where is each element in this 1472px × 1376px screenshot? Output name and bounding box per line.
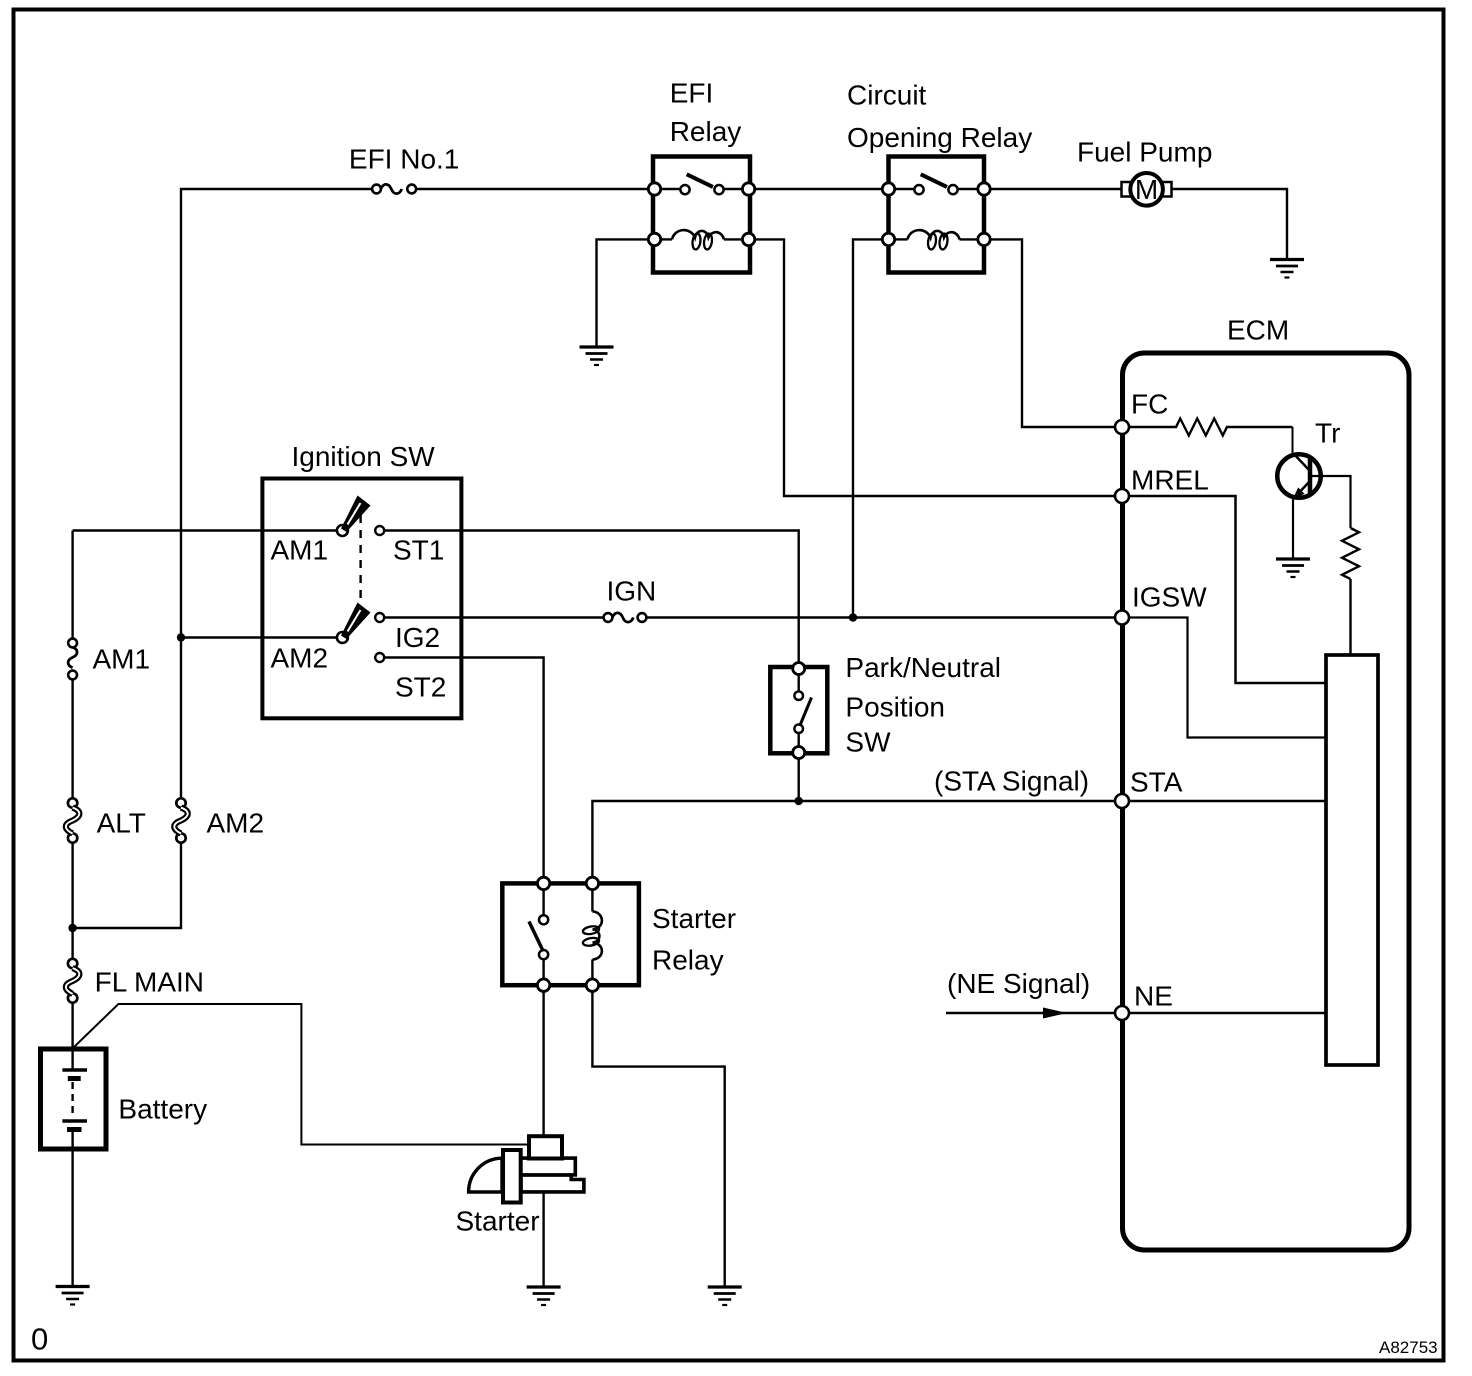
fuse FL MAIN fusible link xyxy=(68,959,77,968)
svg-text:ECM: ECM xyxy=(1227,315,1289,346)
relay COR switch contact wires xyxy=(895,188,915,190)
svg-text:Position: Position xyxy=(845,692,945,723)
wire battery to ground xyxy=(71,1132,73,1287)
switch P/N terminals xyxy=(793,663,805,675)
svg-text:ST1: ST1 xyxy=(393,535,444,566)
lever AM1 xyxy=(341,496,371,533)
junction left vertical xyxy=(68,924,76,932)
lever AM2 xyxy=(341,603,371,640)
svg-text:(STA Signal): (STA Signal) xyxy=(934,766,1089,797)
ECM box xyxy=(1123,353,1410,1250)
relay COR terminals xyxy=(882,183,894,195)
wire MREL internal xyxy=(1129,496,1326,683)
fuse EFI No.1 xyxy=(372,185,381,194)
relay EFI switch contact wires xyxy=(661,188,681,190)
junction IGN-COR branch xyxy=(849,613,857,621)
relay starter switch blade xyxy=(529,922,543,952)
wire battery feed to starter xyxy=(74,1004,530,1145)
dashed link levers xyxy=(359,515,361,604)
fuse AM2 fusible link xyxy=(176,798,185,807)
relay EFI Relay box xyxy=(653,157,750,273)
wire STA row xyxy=(592,801,1115,877)
wire ST1 to Park/Neutral SW xyxy=(384,531,799,663)
terminal AM2 xyxy=(337,632,348,643)
terminal IG2 xyxy=(375,613,384,622)
terminal ST2 xyxy=(375,653,384,662)
wire B+ feed top (corner at 181,189 down to AM2 junction) xyxy=(181,189,372,634)
wire FL MAIN to battery xyxy=(71,1003,73,1069)
svg-text:ST2: ST2 xyxy=(395,672,446,703)
pin STA xyxy=(1115,794,1129,808)
wire IGSW internal xyxy=(1129,618,1326,738)
ground Tr emitter xyxy=(1276,557,1310,560)
motor fuel pump xyxy=(1122,182,1132,197)
pin NE xyxy=(1115,1006,1129,1020)
svg-text:Battery: Battery xyxy=(118,1094,207,1125)
svg-text:FL MAIN: FL MAIN xyxy=(95,967,204,998)
battery box xyxy=(41,1049,107,1149)
switch Ignition SW box xyxy=(262,479,461,719)
wire NE signal arrow xyxy=(946,1012,1115,1014)
wire ST2 to starter relay xyxy=(384,658,543,878)
relay starter switch wires xyxy=(542,890,544,916)
pin MREL xyxy=(1115,489,1129,503)
svg-text:(NE Signal): (NE Signal) xyxy=(947,968,1090,999)
switch P/N blade xyxy=(800,698,812,727)
switch P/N inner wires xyxy=(798,675,800,692)
wire EFI relay to MREL xyxy=(755,239,1115,496)
svg-text:FC: FC xyxy=(1131,389,1168,420)
resistor FC xyxy=(1129,419,1293,436)
svg-text:STA: STA xyxy=(1130,767,1183,798)
relay COR coil xyxy=(895,238,908,240)
svg-text:IGSW: IGSW xyxy=(1132,582,1207,613)
wire fuel pump to ground xyxy=(1172,189,1288,260)
wire base to resistor xyxy=(1310,476,1351,528)
ECM internal block xyxy=(1326,655,1378,1065)
svg-text:Tr: Tr xyxy=(1315,418,1340,449)
relay Circuit Opening Relay box xyxy=(889,157,985,273)
terminal ST1 xyxy=(375,526,384,535)
resistor base pulldown xyxy=(1342,528,1359,579)
wire resistor to block xyxy=(1349,579,1351,655)
terminal AM1 xyxy=(337,525,348,536)
svg-text:M: M xyxy=(1135,174,1158,205)
relay EFI switch blade xyxy=(687,174,713,187)
svg-text:Opening Relay: Opening Relay xyxy=(847,122,1032,153)
wire IGN fuse to IGSW pin xyxy=(646,616,1115,618)
fuse IGN xyxy=(604,613,613,622)
battery plates xyxy=(62,1068,87,1072)
switch Park/Neutral box xyxy=(770,667,827,753)
svg-text:SW: SW xyxy=(845,727,891,758)
svg-text:NE: NE xyxy=(1134,981,1173,1012)
wire COR coil to IGN junction xyxy=(853,239,882,617)
svg-text:Fuel Pump: Fuel Pump xyxy=(1077,137,1212,168)
relay starter terminals xyxy=(537,877,549,889)
wire IGN row (IG2 to IGSW) xyxy=(384,616,604,618)
wire AM1 row xyxy=(73,529,337,531)
svg-text:EFI: EFI xyxy=(670,78,714,109)
svg-text:Ignition SW: Ignition SW xyxy=(292,441,436,472)
ground EFI relay xyxy=(580,345,614,348)
svg-text:Starter: Starter xyxy=(652,903,736,934)
wire starter to ground xyxy=(542,1192,544,1287)
relay starter coil xyxy=(591,890,593,912)
pin FC xyxy=(1115,420,1129,434)
svg-text:AM2: AM2 xyxy=(207,808,265,839)
svg-text:AM2: AM2 xyxy=(271,643,329,674)
wire ALT fuse to FL MAIN xyxy=(71,843,73,960)
wire P/N to STA wire xyxy=(798,759,800,802)
wire AM2 fuse to junction xyxy=(73,843,181,929)
starter motor icon xyxy=(469,1158,502,1192)
wire COR coil to FC xyxy=(990,239,1115,427)
svg-text:Starter: Starter xyxy=(456,1206,540,1237)
svg-text:IG2: IG2 xyxy=(395,622,440,653)
fuse AM1 xyxy=(68,639,77,648)
svg-text:Relay: Relay xyxy=(652,945,724,976)
switch P/N inner contacts xyxy=(794,691,803,700)
wire emitter to ground xyxy=(1292,498,1294,559)
transistor Tr xyxy=(1277,454,1321,498)
wire starter relay to starter xyxy=(542,991,544,1136)
junction P/N STA xyxy=(795,797,803,805)
svg-text:A82753: A82753 xyxy=(1379,1338,1438,1357)
relay starter switch inner contacts xyxy=(539,915,548,924)
wire AM2 row xyxy=(181,636,337,638)
wire EFI relay to Circuit Opening Relay xyxy=(755,188,883,190)
relay EFI coil xyxy=(661,238,672,240)
ground battery xyxy=(56,1285,90,1288)
svg-text:Relay: Relay xyxy=(670,116,742,147)
svg-text:MREL: MREL xyxy=(1131,465,1209,496)
junction AM2 branch top xyxy=(177,633,185,641)
wire fuse to EFI relay xyxy=(416,188,648,190)
fuse ALT fusible link xyxy=(68,798,77,807)
relay Starter Relay box xyxy=(502,883,639,985)
relay COR switch blade xyxy=(921,174,947,187)
wire left vertical top xyxy=(71,531,73,640)
svg-text:0: 0 xyxy=(31,1322,48,1357)
ground starter relay coil xyxy=(708,1285,742,1288)
wire STA internal xyxy=(1129,800,1326,802)
svg-text:ALT: ALT xyxy=(97,808,146,839)
svg-text:Circuit: Circuit xyxy=(847,80,927,111)
relay EFI terminals xyxy=(648,183,660,195)
svg-text:AM1: AM1 xyxy=(93,644,151,675)
wire collector xyxy=(1292,427,1294,454)
svg-text:AM1: AM1 xyxy=(271,535,329,566)
pin IGSW xyxy=(1115,611,1129,625)
svg-text:Park/Neutral: Park/Neutral xyxy=(845,652,1001,683)
wire NE internal xyxy=(1129,1012,1326,1014)
wire AM2 branch vertical xyxy=(180,638,182,799)
svg-text:EFI No.1: EFI No.1 xyxy=(349,144,459,175)
svg-text:IGN: IGN xyxy=(607,576,657,607)
wire AM1 fuse to ALT fuse xyxy=(71,679,73,798)
wire starter relay coil to ground xyxy=(592,991,724,1287)
ground fuel pump xyxy=(1270,258,1304,261)
wire EFI coil to ground xyxy=(597,239,649,347)
ground starter xyxy=(527,1285,561,1288)
relay COR switch inner contacts xyxy=(914,185,923,194)
wire COR switch to fuel pump xyxy=(990,188,1121,190)
relay EFI switch inner contacts xyxy=(680,185,689,194)
